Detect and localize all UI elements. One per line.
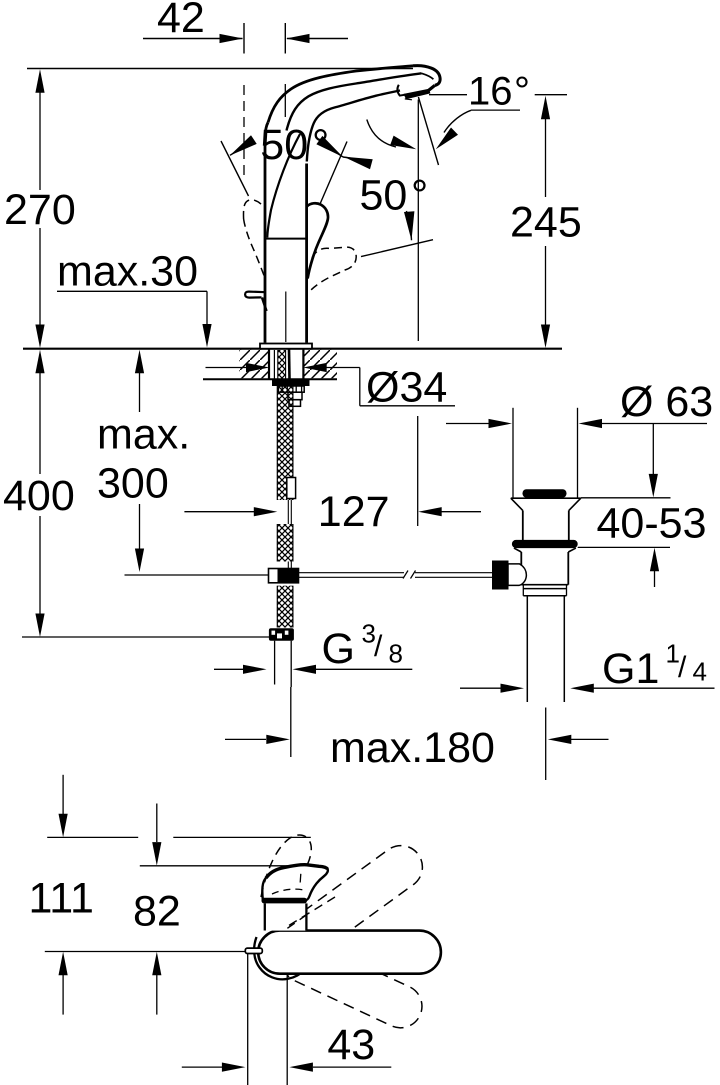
spout outlet vertical reference: [417, 100, 420, 527]
svg-text:/: /: [374, 630, 383, 663]
supply tube below nut: [275, 641, 292, 687]
svg-text:40-53: 40-53: [597, 500, 707, 548]
svg-text:max.180: max.180: [330, 724, 495, 772]
horizontal lever rod: [299, 571, 494, 579]
handle-up dashed centerline: [243, 85, 245, 175]
drain side housing and rod end: [492, 561, 526, 590]
swivel spout dashed up position: [271, 837, 431, 969]
dimension 40-53: [578, 424, 707, 588]
svg-text:8: 8: [389, 639, 403, 669]
faucet body outline: [265, 123, 307, 343]
spout tip: [413, 66, 440, 92]
dimension 43: [182, 954, 391, 1085]
svg-text:4: 4: [693, 657, 707, 687]
svg-text:300: 300: [97, 460, 169, 508]
swivel spout dashed down position: [275, 933, 429, 1035]
svg-text:max.: max.: [97, 411, 190, 459]
svg-text:Ø 63: Ø 63: [620, 378, 713, 426]
dimension 50 degrees lower: [320, 142, 433, 257]
svg-text:82: 82: [133, 888, 181, 936]
handle dashes crossing body: [284, 897, 335, 931]
dimension diameter 34: [206, 363, 456, 412]
faucet base plate: [260, 344, 312, 349]
pop-up drain body: [511, 489, 581, 584]
svg-text:270: 270: [4, 186, 76, 234]
handle-up dashed outline: [243, 200, 264, 276]
dimension 270: [4, 69, 76, 348]
svg-text:16: 16: [468, 70, 513, 114]
dimension 42: [143, 0, 348, 54]
dimension 127: [184, 488, 481, 536]
16 degree slant line: [418, 97, 438, 165]
handle-down dashed outline: [311, 247, 356, 290]
dimension 245: [510, 96, 582, 348]
faucet spout outer curve: [268, 66, 413, 123]
drain tailpipe: [523, 585, 566, 702]
mounting deck: [23, 349, 562, 380]
svg-text:43: 43: [327, 1021, 375, 1069]
pop-up lever knob: [245, 292, 266, 311]
pop-up rod vertical: [287, 478, 296, 569]
faucet body centerline: [285, 292, 287, 343]
faucet spout inner curve: [307, 91, 400, 162]
42 right extension line: [284, 84, 286, 117]
valve body circle: [254, 937, 303, 979]
svg-text:400: 400: [3, 472, 75, 520]
svg-text:111: 111: [29, 875, 94, 923]
svg-text:max.30: max.30: [57, 248, 198, 296]
dimension max.300: [97, 350, 190, 572]
aerator: [397, 85, 430, 100]
dimension G1 1/4: [460, 639, 715, 694]
svg-text:42: 42: [157, 0, 205, 42]
dimension max.180: [225, 687, 609, 780]
spout top view pill: [258, 931, 441, 974]
rod clamp block: [269, 569, 299, 583]
flexible supply hose: [277, 386, 293, 628]
svg-text:127: 127: [318, 488, 390, 536]
top reference line: [27, 68, 413, 70]
svg-text:°: °: [514, 70, 530, 114]
handle top view dashed raised: [261, 835, 311, 897]
dimension G3/8: [214, 619, 412, 674]
handle top view: [262, 865, 328, 904]
dimension 82: [133, 804, 292, 1015]
max300 bottom reference line: [125, 574, 269, 576]
dimension 400: [3, 350, 75, 637]
400 bottom reference line: [22, 636, 271, 638]
svg-text:G1: G1: [602, 645, 659, 693]
svg-text:/: /: [678, 651, 687, 684]
bottom reference line: [45, 951, 246, 953]
svg-text:245: 245: [510, 199, 582, 247]
dimension 16 degrees: [367, 70, 567, 150]
pop-up rod nub top view: [245, 948, 262, 953]
dimension 111: [29, 775, 311, 1015]
faucet spout middle curve: [287, 73, 422, 130]
dimension max.30: [57, 248, 212, 348]
handle closed bump: [307, 203, 328, 278]
faucet shank in deck hole: [274, 350, 289, 380]
body column top view: [265, 901, 307, 931]
svg-text:50: 50: [260, 121, 308, 169]
dimension 50 degrees upper: [221, 121, 343, 196]
pop-up drain extension lines: [513, 408, 578, 498]
mounting nut below deck: [272, 380, 310, 407]
svg-text:Ø34: Ø34: [366, 364, 447, 412]
svg-text:G: G: [322, 625, 355, 673]
dimension diameter 63: [446, 378, 713, 428]
svg-text:50: 50: [360, 172, 408, 220]
hose end nut G3/8: [269, 628, 294, 641]
handle inner curve: [267, 134, 300, 238]
